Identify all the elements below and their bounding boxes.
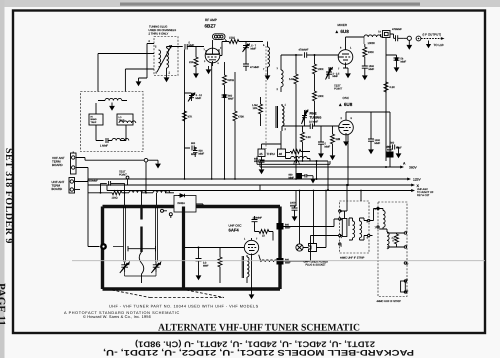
capacitor 1000MMF power [290,191,298,214]
coil uhf choke 2 [153,191,170,193]
osc grid wire [282,125,310,127]
svg-text:RF AMP: RF AMP [205,18,217,22]
svg-text:ALTERNATE VHF-UHF TUNER SCHEMA: ALTERNATE VHF-UHF TUNER SCHEMATIC [158,322,360,333]
svg-text:100K: 100K [368,51,374,54]
resistor 1.5M 10% [252,97,263,126]
svg-text:PACKARD-BELL MODELS 21DC1, -U,: PACKARD-BELL MODELS 21DC1, -U, 21DC2, -U… [103,348,414,357]
svg-text:800: 800 [390,142,395,145]
plate wire mixer [346,36,365,38]
UHF OSC label [229,224,242,233]
capacitor 5 MMF [185,42,204,50]
ground 22K osc [330,152,336,160]
ground selector cap [259,166,265,174]
svg-text:46: 46 [279,152,283,156]
hi-band trap box [89,114,103,125]
svg-text:3.3K: 3.3K [306,136,312,139]
svg-text:▲ 6U8: ▲ 6U8 [338,102,353,107]
svg-text:100Ω: 100Ω [112,197,118,200]
capacitor 1500 MMF plate [362,65,375,72]
svg-text:MMF: MMF [401,60,407,63]
svg-text:21DT1, -U, 24DC1, -U, 24DD1, -: 21DT1, -U, 24DC1, -U, 24DD1, -U, 24DT1, … [135,340,375,349]
ground 56 MMF [394,64,400,72]
center tuning rod thick [140,208,142,252]
test point terminal [126,176,129,185]
uhf preselector variable cap 2 [151,262,160,274]
VHF ANT TERM BOARD label [52,156,65,167]
svg-text:R17 & C27: R17 & C27 [417,194,430,197]
wire antenna box vertical feed right [124,69,126,92]
wire pin6 branch [139,44,155,79]
svg-text:MMF: MMF [189,44,195,47]
junction dot uhf [198,247,200,249]
pin numbers T1 [149,40,172,75]
ground osc cathode [343,138,349,146]
IF2 resistor 2.2K [387,233,404,247]
wire antenna box vertical feed left [97,54,99,92]
M1 output box [368,31,391,45]
gang bar [128,246,156,251]
ground bus stub [309,159,311,162]
resistor 100K plate [363,37,374,66]
capacitor 3.3 MMF [196,256,209,272]
cell1 bottom wires [125,272,157,276]
aux bus line y164 [257,157,330,165]
svg-text:MMF: MMF [251,47,257,50]
gang dashed line 3 [187,290,225,298]
wire 22K [195,47,197,71]
capacitor 5 MMF osc [318,126,331,150]
svg-text:MMF: MMF [196,97,202,100]
ground 5 MMF [318,150,324,158]
wire VHF board to connector [76,158,88,182]
preselector line pair 1 [113,207,126,262]
resistor 100K mixer grid [313,55,324,90]
wire coil L1 [98,100,127,102]
feedthrough 800MMF bus [289,173,316,184]
svg-text:6.2K: 6.2K [390,86,396,89]
VHF antenna terminal board [71,153,77,174]
coil L1 [105,98,122,100]
wire grid vertical AGC feed [183,47,185,180]
svg-text:1500MMF: 1500MMF [87,180,98,183]
ground below box [249,291,255,299]
tube V3 6AF4 [242,238,259,259]
FINE TUNING label [310,112,322,120]
ground T1 [164,74,170,82]
scan gray margin top [0,0,500,7]
crystal diode box IN82A [174,194,203,212]
svg-text:47 MMF: 47 MMF [250,66,260,69]
slug arrow [157,46,172,73]
capacitor 800 MMF agc [185,142,198,156]
resistor 4.7K uhf [218,248,222,284]
wire cathode bus V1 [224,62,226,74]
wire T1 secondary top to grid cap [167,47,183,49]
capacitor 800 MMF mid [193,147,205,157]
wire x211 long [211,63,213,179]
interstage shield dashed line [265,46,267,149]
B+ feed vertical [386,38,397,162]
X bus [88,184,420,188]
IF strip 2 dashed box [378,202,407,297]
wire IF1 to IF2 [370,209,381,236]
svg-text:POINT: POINT [119,174,127,177]
capacitor 470 MMF output [390,28,404,41]
B+ 360V bus [260,161,418,170]
ground 22K [193,70,199,78]
wire UHF board to box terminal [75,182,100,247]
svg-text:620Ω: 620Ω [228,79,234,82]
resistor 100K test point [313,90,324,126]
wire connector to arrow [148,159,158,161]
svg-text:TO L10: TO L10 [434,43,444,47]
fine tuning trimmer [302,110,309,127]
svg-text:22K: 22K [189,61,194,64]
coil T1 primary [159,50,161,67]
antenna fork symbol [293,157,300,166]
trimmer .5-7 MMF [243,42,257,53]
TEST POINT left label [119,171,127,177]
capacitor 800 MMF B+ [386,142,402,151]
wire plate V1 right [220,42,228,56]
svg-text:1 MMF: 1 MMF [100,145,108,148]
diode pin circles [161,209,173,218]
wire chokes into box [125,193,157,207]
IF2 coil a [379,209,385,230]
ground 1000MMF power [292,213,298,221]
svg-text:100K: 100K [318,95,324,98]
IF1 pin labels [341,210,369,248]
svg-text:470MMF: 470MMF [299,49,309,52]
wire osc cathode down [347,135,349,185]
capacitor 470 MMF mixer grid [299,49,339,58]
gang dashed line 1 [112,290,150,298]
UHF tuner thick box outline [103,207,281,290]
uhf osc coil L7 [242,255,249,283]
scan dark streak top edge [120,3,420,6]
antenna input filter dashed box [81,92,144,152]
resistor 22K grid [189,56,198,68]
svg-text:THRU: THRU [267,152,275,156]
svg-text:45: 45 [259,152,263,156]
ground arrow at connector [155,160,161,168]
ground 800 MMF B+ [396,150,402,158]
arrow TO L10 [426,41,444,49]
MIXER label [335,23,350,34]
power plug circle [296,191,303,252]
svg-text:6BZ7: 6BZ7 [205,24,217,29]
ground at coil L1 [109,103,115,111]
mixer grid wire [281,55,303,64]
svg-text:22K: 22K [336,138,341,141]
capacitor 1500 MMF bypass arch [87,180,125,193]
scan crease line [72,260,485,262]
connector jack [144,158,148,162]
label UHF TUNER POWER [304,261,329,267]
resistor 47K [183,110,193,122]
resistor 5.6K [289,55,298,179]
ground 1500 MMF [362,72,368,80]
svg-text:44MC UHF IF STRIP: 44MC UHF IF STRIP [340,257,365,260]
svg-text:470MMF: 470MMF [392,28,402,31]
wire to phono connector [82,158,144,161]
resistor selector output [286,150,303,154]
junction dot 5.6K [295,54,297,56]
svg-text:7A: 7A [378,31,381,34]
svg-text:MMF: MMF [285,261,291,264]
resistor 3.3K osc grid [301,126,312,161]
svg-text:10000: 10000 [368,42,376,45]
IF2 pin labels [375,208,409,293]
trimmer 3-12 MMF [185,93,203,102]
svg-text:PLUG & SOCKET: PLUG & SOCKET [306,264,327,267]
svg-text:125V: 125V [413,178,422,182]
junction dots choke row [100,192,147,194]
IF2 pin circles [377,207,407,293]
svg-text:OSC: OSC [343,96,350,100]
tube V2B 6U8 osc [339,112,354,141]
IF2 coil b [379,229,389,249]
svg-text:MMF: MMF [333,75,339,78]
coil L2 [112,138,129,140]
IF strip 1 dashed box [340,201,370,253]
resistor 22K osc [331,126,341,152]
wire jack to choke junction [145,162,147,193]
label TUNING SLUG note [149,26,177,36]
wire uhf agc drop [259,185,261,191]
wire cathode down [224,102,226,179]
svg-text:MIXER: MIXER [338,23,348,27]
resistor 6.2K [384,81,395,93]
coax plug [416,36,444,41]
ground mixer cathode [345,68,351,78]
uhf preselector variable cap 1 [120,262,129,274]
wire osc coil to selector [262,131,282,149]
feedthrough 800MMF box right 1 [277,223,291,230]
gang dashed line 2 [150,297,224,299]
UHF ANT TERM BOARD label [52,180,65,191]
wire UHF board lower stub [75,189,81,191]
svg-text:MMF: MMF [325,145,331,148]
svg-text:BAND: BAND [91,118,97,121]
thick divider [182,207,185,290]
svg-text:470K: 470K [238,116,244,119]
svg-text:© Howard W. Sams & Co., Inc.: © Howard W. Sams & Co., Inc. 1956 [83,314,151,319]
capacitor 56 MMF [394,55,407,64]
tuning rod wiggle [139,252,144,283]
IF1 pin circles [339,210,370,245]
svg-text:LO: LO [119,116,122,119]
svg-text:6AF4: 6AF4 [229,228,240,233]
svg-text:150Ω: 150Ω [229,37,235,40]
svg-text:1K: 1K [262,235,265,238]
ground 1000 MMF [368,146,374,154]
power socket box [303,191,326,252]
resistor 620 ohm [223,74,234,86]
svg-text:BOARD: BOARD [52,163,64,167]
svg-text:(I F OUTPUT): (I F OUTPUT) [423,33,442,37]
svg-text:MMF: MMF [203,264,209,267]
TEST POINT label [334,85,342,91]
feedthrough 800MMF box right 2 [277,258,291,265]
coil L5 mixer plate [364,35,381,37]
wire to trimmer [240,41,263,43]
IF2 bottom bracket [401,281,406,292]
capacitor 1 MMF [98,138,112,148]
uhf input main wire [88,192,174,194]
svg-text:▲ 6U8: ▲ 6U8 [335,29,350,34]
svg-text:TRAP: TRAP [91,121,97,124]
UHF antenna terminal board [69,178,75,194]
svg-text:UHF - VHF TUNER PART NO. 10: UHF - VHF TUNER PART NO. 10044 USED WITH… [109,305,259,309]
IF1 coil a [349,218,355,240]
svg-text:MMF: MMF [199,152,205,155]
coil T1 secondary [167,48,169,68]
ground arrow pin branch [136,78,142,86]
svg-text:5.6K: 5.6K [289,78,295,81]
output jack [404,36,412,50]
125V bus [88,178,422,182]
ground L3 [265,72,271,80]
wire horizontal feed to tuner coil [98,53,154,55]
svg-text:MMF: MMF [191,153,197,156]
uhf cathode down through box [251,258,253,291]
feedthrough 800 MMF osc plate [371,112,394,167]
junction dot grid [314,54,316,56]
coil selector output [286,152,311,159]
svg-text:MMF: MMF [375,142,381,145]
preselector line pair 2 [156,207,158,262]
capacitor 800 MMF selector 1 [254,157,265,167]
ground cathode V1 [206,66,212,74]
svg-text:POINT: POINT [334,88,342,91]
coil uhf choke 1 [129,191,146,193]
IF1 input link rect [340,211,347,237]
resistor 150 ohm plate [228,37,240,44]
svg-text:10 MMF: 10 MMF [309,121,319,124]
resistor 470K [233,72,244,179]
wires inside antenna box [96,103,126,141]
coil L3 interstage [263,42,270,73]
oscillator coil L6 [276,104,287,132]
osc section wire [185,248,244,257]
scan gray margin left [0,0,5,358]
VHF AGC bus [107,185,434,197]
svg-text:100K: 100K [318,68,324,71]
IF1 coil b [360,218,368,240]
capacitor 1000 MMF osc [368,139,381,146]
OSC label [338,96,353,107]
tube V2A 6U8 mixer [338,37,353,71]
bus junction wires y161 [303,161,329,190]
antenna terminal on box edge [100,243,107,250]
wire horizontal feed 2 [125,68,154,70]
wire board top stub into antenna box [72,152,74,154]
svg-text:47K: 47K [188,116,193,119]
capacitor 47 MMF [243,52,260,71]
coil L4 uhf link [277,64,284,92]
capacitor 10 MMF [310,124,339,130]
svg-text:PAGE 11: PAGE 11 [0,283,7,326]
svg-text:2 THRU 6 ONLY: 2 THRU 6 ONLY [149,32,169,35]
ground 3.3 MMF [196,272,202,280]
channel selector boxes 45 THRU 46 [258,149,286,157]
svg-text:MMF: MMF [228,97,234,100]
coil uhf choke out [259,255,278,262]
wires into IF1 [284,185,362,261]
junction dot IF1 [346,184,348,186]
RF AMP label [205,18,217,29]
RF input coil dashed box [154,37,178,76]
svg-text:TUNING: TUNING [310,115,322,119]
tube shield cap [213,34,228,42]
lo-band trap box [117,114,136,125]
svg-text:360V: 360V [409,166,418,170]
svg-text:SET 318 FOLDER 9: SET 318 FOLDER 9 [3,148,14,244]
osc plate wire [346,112,371,139]
tube V1 6BZ7 RF amp [204,40,223,66]
resistor 100 ohm uhf [111,191,123,200]
capacitor 800 MMF cathode [222,86,235,102]
svg-text:10%: 10% [253,107,259,110]
wire T1 bottom to ground [166,68,168,74]
svg-text:800: 800 [191,142,196,145]
resistor 1K uhf osc [255,225,274,241]
svg-text:MMF: MMF [369,68,375,71]
svg-text:44MC UHF IF STRIP: 44MC UHF IF STRIP [377,300,402,303]
trimmer 2-2.5 MMF [326,67,340,80]
svg-text:IN82A: IN82A [178,202,186,205]
capacitor 100 MMF uhf osc [252,216,263,225]
svg-text:BOARD: BOARD [52,187,64,191]
junction dots bus [184,160,387,191]
